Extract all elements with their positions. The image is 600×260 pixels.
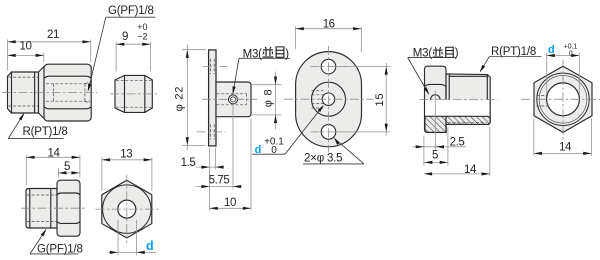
hex washer body (57, 180, 80, 236)
dimension 14 (489, 127, 491, 176)
inner chamfer arc (539, 76, 587, 124)
center hole d (322, 93, 334, 105)
hex facet line top (45, 76, 91, 77)
chamfer line (11, 72, 13, 113)
centerline (420, 99, 498, 101)
svg-text:16: 16 (323, 18, 335, 30)
svg-text:G(PF)1/8: G(PF)1/8 (108, 5, 154, 17)
svg-text:13: 13 (120, 149, 132, 161)
main centerline (202, 98, 257, 100)
centerline (2, 92, 97, 94)
svg-text:10: 10 (20, 40, 32, 52)
horizontal centerline (96, 208, 159, 210)
dimension 10 (250, 119, 252, 211)
vertical centerline (126, 175, 128, 244)
hex nut body (44, 64, 91, 121)
vertical centerline (328, 46, 330, 153)
dimension phi22 (182, 49, 206, 51)
dimension 15 (337, 65, 390, 67)
dimension 13 (101, 157, 103, 191)
nut body with chamfered corners (115, 75, 152, 112)
view: hex plug E side view (half section) (408, 46, 542, 176)
dimension 10 (43, 53, 45, 63)
svg-text:9: 9 (122, 31, 128, 43)
svg-text:1.5: 1.5 (181, 157, 196, 169)
dimension 2.5 (423, 136, 425, 166)
facet line left (124, 75, 126, 112)
view: plug G side view (bottom-left) (21, 147, 85, 255)
view: adapter A side view (top-left) (2, 5, 155, 138)
svg-text:d: d (548, 44, 555, 56)
horizontal centerline (521, 98, 600, 100)
bolt hole centerline top (311, 66, 347, 68)
hexagon outline (102, 180, 152, 238)
bolt hole centerline top (203, 65, 228, 67)
hidden thread lines (116, 80, 152, 82)
svg-text:φ 22: φ 22 (174, 86, 186, 112)
hidden boss thread lines (217, 93, 247, 95)
section hatch region (425, 116, 490, 132)
dimension 21 (7, 40, 9, 71)
hexagon outline (534, 66, 592, 132)
svg-text:5: 5 (64, 161, 70, 173)
hidden thread root in section (448, 122, 487, 124)
hidden M3 dashes (537, 95, 548, 97)
view: flange fitting C front view (obround flange) (251, 18, 390, 164)
obround flange outline (296, 52, 362, 147)
hex head facet line (425, 84, 446, 86)
svg-text:14: 14 (559, 141, 572, 153)
bolt hole top (321, 59, 336, 74)
hex-body boundary lines (445, 85, 447, 99)
M3 tapped hole semicircle (431, 95, 440, 100)
svg-text:14: 14 (464, 164, 477, 176)
svg-text:φ 8: φ 8 (262, 89, 274, 108)
hole circle d (118, 200, 136, 218)
svg-text:d: d (146, 239, 154, 253)
bolt hole centerline bottom (311, 131, 347, 133)
thread second line (449, 75, 487, 77)
dimension phi8 (251, 84, 281, 86)
hidden thread dashes (312, 89, 324, 91)
cone transition to hex (39, 67, 45, 119)
facet line right (144, 75, 146, 112)
view: hex plug E front view (hex face) (521, 44, 600, 156)
svg-text:5.75: 5.75 (209, 174, 230, 186)
thread relief line (50, 189, 52, 229)
hidden thread lines (27, 194, 57, 196)
svg-text:2×φ 3.5: 2×φ 3.5 (304, 153, 342, 165)
dimension 14 (25, 155, 27, 185)
svg-text:10: 10 (224, 197, 236, 209)
hole center extension line (434, 91, 436, 151)
hex facet lines (58, 193, 80, 195)
dimension 5.75 (232, 105, 234, 189)
view: flange fitting C side view (174, 45, 290, 211)
dimension 14 (533, 119, 535, 156)
svg-text:R(PT)1/8: R(PT)1/8 (23, 126, 68, 138)
dimension 5 (58, 168, 60, 178)
svg-text:2.5: 2.5 (450, 137, 465, 149)
svg-text:0: 0 (569, 50, 573, 57)
centerline (21, 207, 85, 209)
flange plate (209, 50, 216, 146)
centerline (110, 93, 158, 95)
chamfer line (29, 189, 31, 229)
hidden female thread lines (46, 83, 90, 85)
hidden bolt hole in plate top (210, 59, 212, 74)
hex head upper silhouette (425, 66, 447, 132)
threaded body (446, 74, 490, 125)
bolt hole centerline bottom (197, 131, 226, 133)
boss circle phi8 (312, 82, 346, 116)
bore circle d (547, 83, 580, 116)
chamfer circle (537, 73, 589, 125)
bolt hole bottom (321, 125, 336, 140)
view: plug G front view (hex face 13) (96, 149, 159, 256)
view: sleeve nut B side view (9mm piece) (110, 22, 158, 113)
hidden bolt hole in plate bottom (210, 124, 212, 139)
dimension 5 (447, 128, 449, 166)
svg-text:14: 14 (48, 147, 61, 159)
horizontal centerline (284, 98, 374, 100)
male thread body R(PT)1/8 (8, 72, 39, 113)
dimension 1.5 (209, 148, 211, 210)
chamfer circle (103, 185, 151, 233)
vertical centerline (562, 60, 564, 141)
svg-text:5: 5 (432, 149, 438, 161)
M3 pilot hole circles (229, 95, 238, 104)
dimension d (blue) (117, 220, 119, 255)
svg-text:15: 15 (374, 93, 386, 107)
thread relief line (34, 72, 36, 113)
hidden male thread lines (9, 76, 39, 78)
svg-text:−2: −2 (137, 32, 147, 42)
open bore band (425, 99, 489, 116)
boss cylinder (216, 82, 251, 117)
dimension 16 (295, 26, 297, 49)
hex facet line bottom (45, 107, 91, 108)
male thread body G(PF)1/8 (26, 189, 57, 229)
svg-text:+0: +0 (137, 22, 147, 32)
dimension 9 +0/-2 (115, 42, 117, 72)
dimension d +0.1/0 (546, 53, 548, 94)
svg-text:21: 21 (47, 29, 59, 41)
